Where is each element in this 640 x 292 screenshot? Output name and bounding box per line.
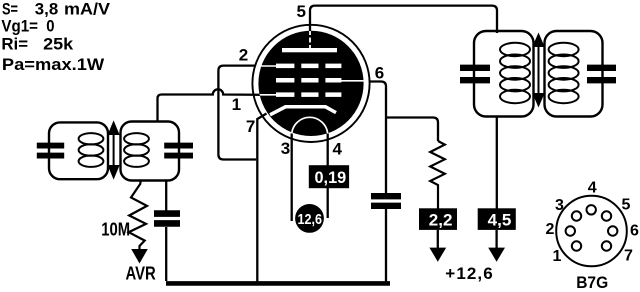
wire and supply arrow (anode): [495, 230, 497, 248]
capacitor C5 (T2 primary tuning): [460, 68, 490, 80]
coil L2 (T1 secondary): [124, 133, 149, 167]
svg-text:4: 4: [333, 140, 343, 159]
B7G pin 2 hole: [566, 226, 575, 235]
svg-text:0,19: 0,19: [315, 168, 347, 187]
resistor R1 10M (grid leak): [129, 181, 147, 250]
wire and supply arrow (screen): [437, 230, 439, 248]
B7G pin 1 hole: [572, 241, 581, 250]
svg-text:4: 4: [588, 180, 597, 197]
svg-text:1: 1: [232, 95, 241, 114]
IF transformer T1 left can: [49, 122, 108, 179]
coil L4 (T2 secondary): [549, 43, 579, 103]
svg-text:4,5: 4,5: [488, 211, 512, 230]
grid lead row1 to pin 2: [258, 65, 277, 67]
svg-text:Vg1=0: Vg1=0: [1, 17, 54, 36]
parameter text block: [1, 0, 110, 74]
IF transformer T2 right can: [545, 31, 603, 117]
heater voltage circle 12,6: [295, 204, 324, 233]
svg-text:5: 5: [622, 197, 631, 214]
capacitor C1 (T1 primary tuning): [37, 146, 64, 156]
svg-text:3: 3: [281, 139, 290, 158]
grid lead row3 to pin 1: [256, 94, 277, 96]
svg-text:7: 7: [246, 117, 255, 136]
coil L1 (T1 primary): [79, 133, 104, 167]
current label 2,2: [419, 208, 457, 230]
svg-text:2: 2: [546, 221, 555, 238]
svg-text:3: 3: [555, 197, 564, 214]
B7G pin 3 hole: [572, 211, 581, 220]
svg-text:6: 6: [630, 223, 639, 240]
B7G pin 7 hole: [602, 241, 611, 250]
coil L3 (T2 primary): [500, 43, 530, 103]
capacitor C3 (grid/AGC decoupling): [154, 214, 180, 224]
B7G pin 4 hole: [587, 205, 596, 214]
grid dashes row 3: [276, 92, 294, 97]
grid dashes row 2: [276, 78, 294, 83]
variable coupling arrow T2: [534, 35, 543, 105]
variable coupling arrow T1: [109, 123, 118, 177]
svg-text:Pa=max.1W: Pa=max.1W: [2, 55, 105, 74]
wire heater pin 4: [327, 134, 329, 219]
grid dashes row 1: [276, 64, 294, 69]
B7G pin labels: [546, 180, 640, 265]
arrow to AVR: [131, 249, 148, 264]
svg-text:AVR: AVR: [126, 263, 157, 284]
resistor R2 (screen feed): [430, 141, 445, 210]
wire pin 6 (screen) down: [370, 82, 387, 194]
B7G pin 6 hole: [608, 226, 617, 235]
wire pin7 down to bus: [257, 114, 266, 282]
wire pin 5 (anode) to T2: [310, 6, 497, 33]
cathode (white chevron): [270, 107, 336, 115]
svg-text:2,2: 2,2: [429, 211, 453, 230]
ground bus: [166, 281, 390, 286]
grid lead row2 to pin 6: [341, 80, 365, 82]
current label 0,19: [309, 165, 349, 188]
wire grid: T1 secondary top to tube pin 1 (with hop over g2 wire): [158, 89, 263, 121]
IF transformer T2 left can: [474, 31, 534, 117]
wire screen to feed resistor: [386, 118, 438, 142]
svg-text:1: 1: [553, 248, 562, 265]
wire C4 to bus: [385, 209, 387, 282]
svg-text:2: 2: [239, 46, 248, 65]
svg-text:5: 5: [297, 2, 306, 21]
tube V1 envelope: [252, 25, 369, 142]
tube V1 internal black disc: [258, 31, 363, 136]
wire heater pin 3: [291, 134, 293, 222]
svg-text:6: 6: [375, 63, 384, 82]
svg-text:B7G: B7G: [576, 273, 608, 292]
anode plate (white bar): [282, 48, 337, 52]
current label 4,5: [478, 208, 516, 230]
wire T2 primary bottom to +12,6: [496, 117, 498, 209]
wire pin2 to ground bus: [218, 66, 256, 160]
B7G base diagram circle: [556, 196, 627, 267]
svg-text:7: 7: [624, 248, 633, 265]
anode lead (dashed white): [309, 30, 311, 48]
svg-text:+12,6: +12,6: [445, 264, 494, 283]
wire T1 secondary bottom to C3: [165, 181, 167, 212]
IF transformer T1 right can: [121, 122, 180, 181]
svg-text:10M: 10M: [101, 219, 130, 240]
capacitor C6 (T2 secondary tuning): [587, 68, 616, 80]
capacitor C4 (screen decoupling): [371, 196, 401, 206]
wire C3 to bus: [165, 227, 167, 281]
heater circle (thin arc over disc): [292, 117, 328, 133]
capacitor C2 (T1 secondary tuning): [164, 146, 193, 156]
svg-text:12,6: 12,6: [298, 211, 323, 228]
B7G pin 5 hole: [602, 211, 611, 220]
